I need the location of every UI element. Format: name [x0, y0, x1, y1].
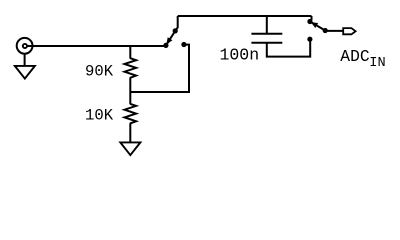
terminal ADC_IN (output pad) — [343, 28, 355, 34]
S1 pole contact dot — [173, 28, 178, 33]
wire S2 pole to output terminal — [325, 30, 343, 32]
S2 top contact dot — [307, 19, 312, 24]
S1 lever — [166, 31, 175, 45]
wire connector to ground — [24, 54, 26, 66]
ground (divider) — [120, 142, 140, 155]
S1 throw contact dot (tap) — [181, 42, 186, 47]
wire capacitor top stub — [266, 16, 268, 34]
connector J1 (input jack) — [17, 38, 33, 54]
resistor R1 90K — [125, 58, 137, 78]
wire divider top segment — [129, 46, 131, 59]
svg-text:ADC: ADC — [340, 47, 370, 66]
S2 pole wire jog — [310, 16, 311, 21]
wire R2 to ground — [129, 123, 131, 142]
S2 lever arrowhead — [311, 22, 319, 28]
capacitor C1 plates — [251, 34, 282, 43]
svg-text:100n: 100n — [220, 46, 260, 65]
S2 pole contact dot — [323, 28, 328, 33]
svg-text:IN: IN — [369, 56, 385, 71]
switch S2 (sample select) — [307, 16, 328, 42]
wire cap bottom to switch S2 contact — [267, 41, 310, 57]
wire between R1 and R2 — [129, 78, 131, 105]
S1 lever arrowhead — [166, 37, 172, 44]
ground (input) — [15, 66, 35, 79]
svg-text:90K: 90K — [85, 63, 114, 81]
S1 pole wire jog — [176, 16, 178, 30]
S2 bottom contact dot — [307, 37, 312, 42]
wire top rail — [178, 15, 312, 17]
S1 throw contact dot (input) — [163, 43, 168, 48]
resistor R2 10K — [125, 104, 137, 124]
svg-text:10K: 10K — [85, 107, 114, 125]
switch S1 (input select) — [163, 16, 186, 48]
wire divider tap to switch S1 contact — [130, 45, 189, 92]
S2 lever — [310, 22, 325, 31]
wire main input net — [27, 45, 166, 47]
